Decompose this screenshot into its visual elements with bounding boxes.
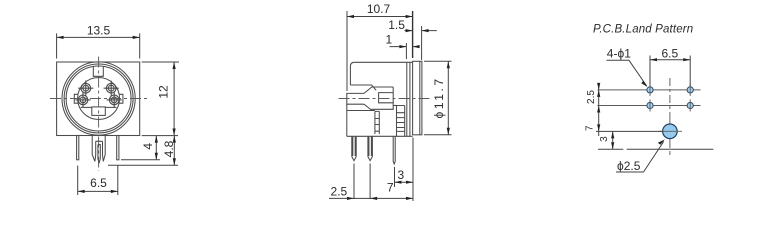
svg-text:12: 12 bbox=[156, 85, 170, 99]
right press-fit ladder bbox=[397, 106, 405, 137]
svg-text:7: 7 bbox=[387, 181, 394, 195]
left press-fit ladder bbox=[375, 111, 379, 134]
svg-text:ϕ11.7: ϕ11.7 bbox=[432, 76, 446, 118]
svg-text:6.5: 6.5 bbox=[661, 46, 678, 60]
internal vertical line 2 bbox=[419, 61, 421, 135]
front flange bbox=[413, 61, 422, 135]
dim 4.8 bbox=[108, 136, 178, 166]
hole top-left bbox=[647, 84, 653, 96]
internal vertical line 3 bbox=[409, 62, 411, 136]
bottom keyway rectangle bbox=[92, 107, 106, 116]
internal vertical line (shield rear) bbox=[406, 62, 408, 136]
pin 3 (top-left) bbox=[78, 81, 93, 96]
svg-text:P.C.B.Land Pattern: P.C.B.Land Pattern bbox=[593, 24, 693, 36]
body top-left rounded corner and left edge of upper block bbox=[350, 62, 354, 85]
front face extension line bbox=[412, 138, 414, 202]
connector body square (front view) bbox=[57, 62, 140, 136]
pin2 extension line bbox=[369, 164, 371, 200]
center shield fork pin bbox=[92, 136, 105, 164]
svg-text:1.5: 1.5 bbox=[388, 18, 405, 32]
board edge line bbox=[598, 148, 713, 150]
body bottom edge bbox=[347, 135, 413, 137]
shield outer circle bbox=[62, 62, 135, 135]
insert chord right bbox=[105, 106, 116, 108]
upper block bottom edge with chamfer bbox=[350, 85, 376, 90]
insert chord left bbox=[81, 106, 92, 108]
svg-text:ϕ2.5: ϕ2.5 bbox=[617, 159, 641, 173]
dim 2.5 / 7 (land, vertical) bbox=[585, 83, 601, 136]
contact chamfer top bbox=[364, 87, 393, 93]
svg-text:10.7: 10.7 bbox=[367, 2, 391, 16]
dim 10.7 bbox=[347, 2, 413, 91]
lower body left edge bbox=[346, 104, 348, 136]
svg-text:7: 7 bbox=[585, 125, 596, 131]
shield ring circle bbox=[64, 64, 133, 133]
pin 4 (top-right) bbox=[104, 81, 119, 96]
side view centerline bbox=[339, 98, 432, 100]
pin 1 (bottom-left) bbox=[75, 92, 90, 107]
dim 6.5 (front) bbox=[78, 166, 118, 196]
big hole horizontal centerline bbox=[658, 130, 682, 132]
contact left rectangle bbox=[347, 93, 364, 104]
dim 1.5 bbox=[388, 18, 437, 60]
left mounting leg bbox=[77, 136, 79, 160]
svg-text:6.5: 6.5 bbox=[90, 176, 107, 190]
svg-text:13.5: 13.5 bbox=[87, 24, 111, 38]
contact socket inner box bbox=[379, 93, 394, 103]
svg-text:3: 3 bbox=[397, 168, 404, 182]
svg-text:4-ϕ1: 4-ϕ1 bbox=[607, 47, 631, 61]
lower body block top edge bbox=[347, 110, 375, 112]
left insert tab bbox=[74, 94, 78, 103]
dim 3 (side) bbox=[395, 168, 414, 184]
extension line at big-hole level bbox=[596, 130, 663, 132]
pin 1 (side, wide) bbox=[352, 136, 356, 160]
row 1 centerline bbox=[598, 89, 701, 91]
dim 1 bbox=[385, 33, 419, 59]
svg-text:2.5: 2.5 bbox=[586, 90, 597, 104]
hole top-right bbox=[687, 84, 693, 96]
contact outer box right/bottom bbox=[372, 87, 394, 110]
dim phi 11.7 bbox=[424, 61, 452, 135]
pin 2 (side, wide) bbox=[368, 136, 373, 160]
dim 3 (land, vertical) bbox=[599, 131, 615, 149]
dim 6.5 (land) bbox=[650, 46, 690, 86]
vertical centerline bbox=[669, 78, 671, 120]
pin 3 (side, thin) bbox=[393, 136, 395, 164]
dim 2.5 / 7 chained bbox=[329, 181, 413, 200]
body top edge bbox=[354, 61, 412, 63]
contact chamfer bottom bbox=[364, 104, 372, 110]
hole mid-right bbox=[687, 100, 693, 112]
insert face circle bbox=[78, 78, 120, 120]
pin 2 (bottom-right) bbox=[107, 92, 122, 107]
right mounting leg bbox=[117, 136, 119, 160]
top keyway notch bbox=[93, 67, 103, 77]
shield inner rim circle bbox=[66, 66, 131, 131]
right insert tab bbox=[119, 94, 123, 103]
vertical centerline bbox=[98, 57, 100, 172]
horizontal centerline bbox=[50, 98, 149, 100]
row 2 centerline bbox=[598, 105, 701, 107]
pin3 extension line bbox=[394, 167, 396, 187]
leader phi 2.5 bbox=[616, 142, 664, 173]
hole mid-left bbox=[647, 100, 653, 112]
step to right ladder bbox=[393, 105, 396, 107]
big hole phi 2.5 bbox=[663, 124, 678, 139]
svg-text:4: 4 bbox=[141, 143, 155, 150]
svg-text:3: 3 bbox=[599, 136, 610, 142]
dim 12 bbox=[142, 62, 179, 136]
dim 4 bbox=[121, 136, 160, 160]
leader 4-phi1 bbox=[607, 60, 647, 86]
pin1 extension line bbox=[353, 164, 355, 200]
dim 13.5 bbox=[57, 24, 140, 59]
svg-text:2.5: 2.5 bbox=[331, 185, 348, 199]
svg-text:1: 1 bbox=[385, 33, 392, 47]
svg-text:4.8: 4.8 bbox=[162, 140, 176, 157]
